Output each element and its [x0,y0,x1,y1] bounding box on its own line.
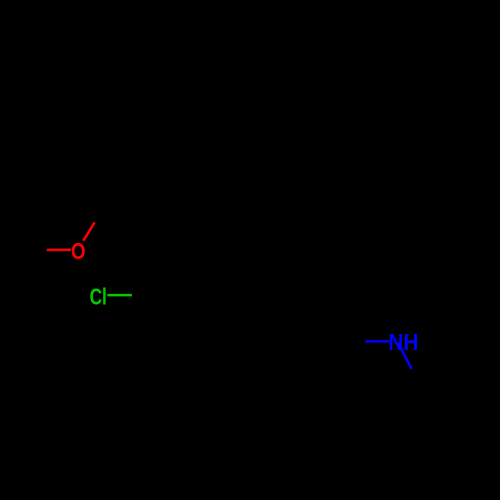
wire bond CH3-O half [47,249,71,252]
svg-text:Cl: Cl [90,283,107,309]
wire bond O-Cring half [83,222,94,240]
wire bond N-C half [398,343,412,369]
svg-text:O: O [71,238,86,264]
wire bond C-N half [365,340,389,343]
wire bond Cl-C half [107,294,131,297]
svg-text:NH: NH [388,329,418,355]
